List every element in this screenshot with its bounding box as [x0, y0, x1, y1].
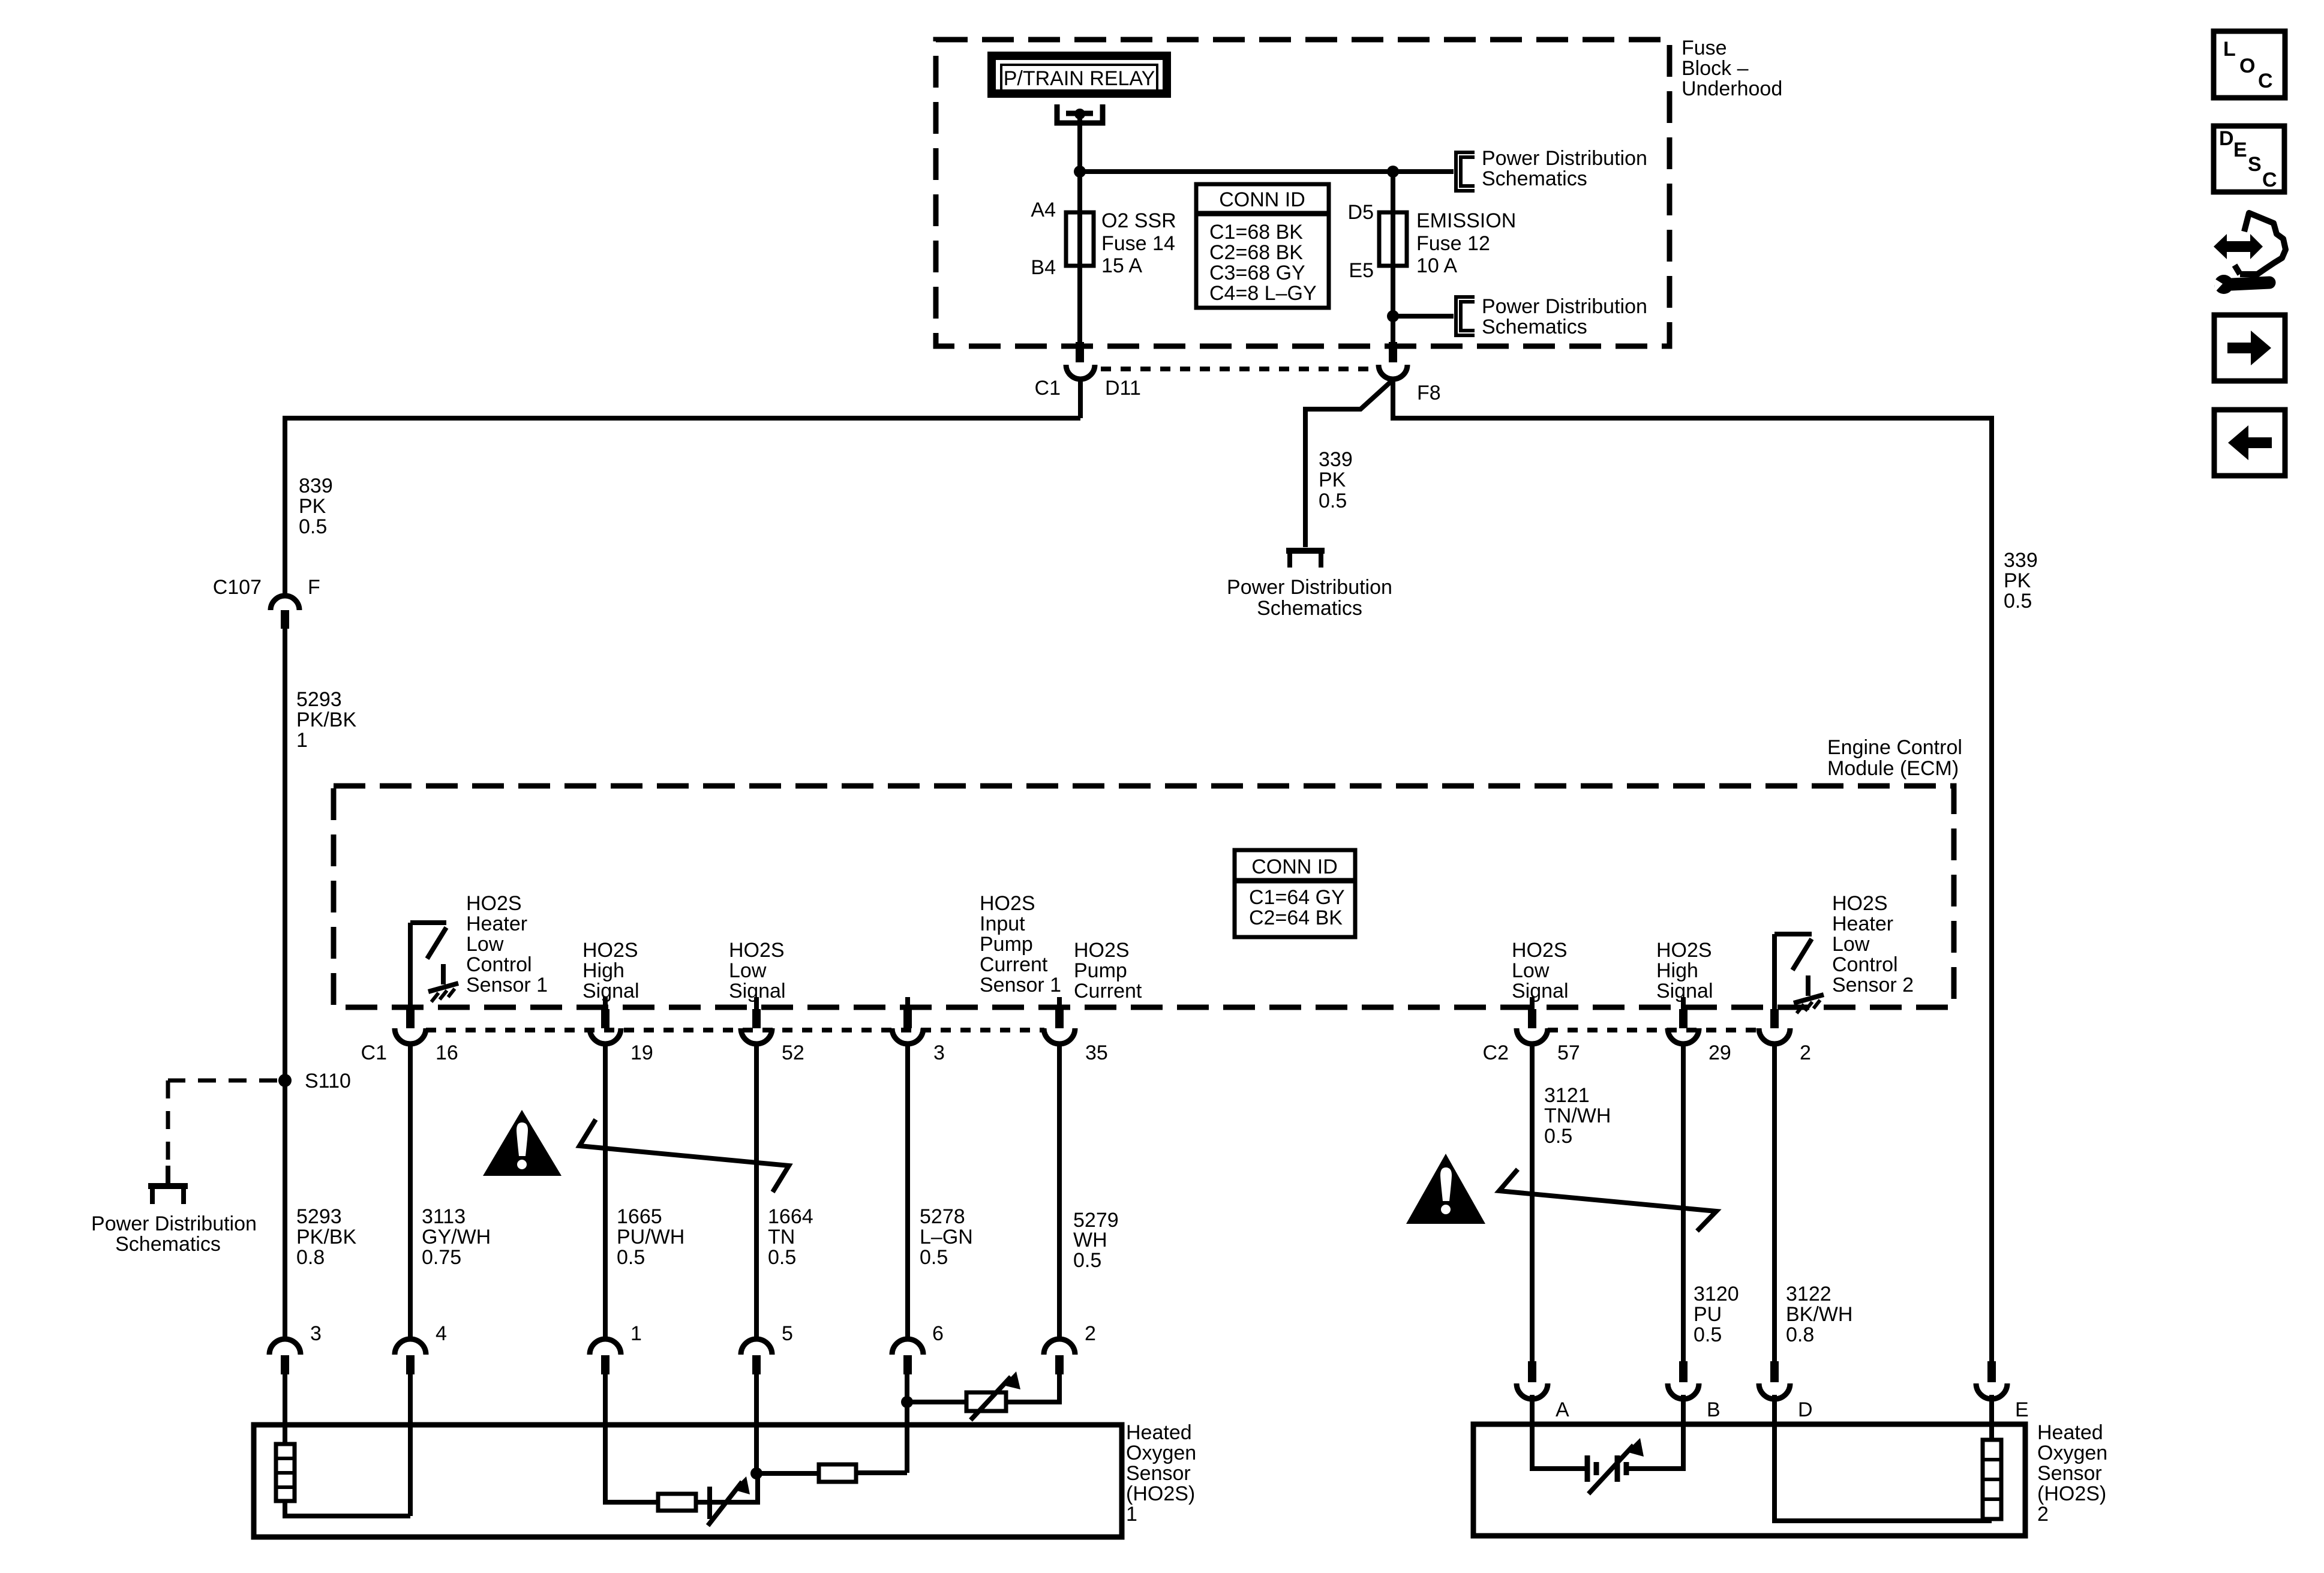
label HO2S High Signal C2: [1656, 939, 1713, 1002]
svg-text:Sensor: Sensor: [2037, 1462, 2102, 1485]
wire 339 PK right bus: [1393, 379, 1992, 1361]
wire 1664 TN: [754, 1044, 759, 1339]
wire pin5 into box: [754, 1374, 759, 1468]
icon back arrow box: [2214, 410, 2285, 476]
wire bus to power distribution: [1080, 169, 1454, 174]
svg-text:0.5: 0.5: [920, 1246, 948, 1269]
fuse F12: EMISSION Fuse 12 10 A: [1379, 212, 1407, 266]
label Power Distribution Schematics 2: [1482, 295, 1647, 338]
label 5293 PK/BK 0.8: [296, 1205, 356, 1269]
svg-text:PK: PK: [2004, 569, 2031, 592]
resistor R1: [658, 1494, 696, 1511]
wire node to resistor R2: [756, 1471, 819, 1476]
svg-text:Oxygen: Oxygen: [1126, 1442, 1196, 1464]
wire resistor R2 to wire6: [856, 1470, 907, 1475]
icon forward arrow box: [2214, 315, 2285, 381]
relay K: P/TRAIN RELAY box: [992, 56, 1167, 94]
wire pin3 into box: [283, 1374, 287, 1444]
svg-text:0.5: 0.5: [1694, 1323, 1722, 1346]
heater element sensor 2: [1983, 1440, 2001, 1519]
svg-text:339: 339: [2004, 549, 2038, 572]
svg-text:0.8: 0.8: [1786, 1323, 1814, 1346]
wire pin6 into box: [905, 1374, 909, 1473]
heater element sensor 1: [276, 1444, 295, 1501]
svg-text:B: B: [1707, 1398, 1721, 1421]
ECM pin 29 connector: [1668, 997, 1699, 1044]
ECM connector line C1: [426, 1028, 1044, 1032]
svg-text:Signal: Signal: [1512, 980, 1569, 1002]
sensor1 pin 1 connector: [590, 1339, 621, 1374]
svg-text:0.5: 0.5: [299, 515, 327, 538]
ECM connector line C2: [1548, 1028, 1759, 1032]
label HO2S Low Signal: [729, 939, 786, 1002]
svg-text:Current: Current: [1074, 980, 1142, 1002]
label Heated Oxygen Sensor (HO2S) 2: [2037, 1421, 2107, 1526]
wire pin4 into box: [408, 1374, 413, 1516]
svg-text:(HO2S): (HO2S): [2037, 1482, 2106, 1505]
wire pin1 into box: [605, 1374, 658, 1502]
svg-text:2: 2: [1800, 1041, 1811, 1064]
svg-text:29: 29: [1709, 1041, 1731, 1064]
svg-text:S110: S110: [305, 1070, 351, 1092]
wire battery to pin B: [1626, 1395, 1683, 1469]
svg-text:3122: 3122: [1786, 1283, 1831, 1305]
pointer zigzag 1: [580, 1119, 789, 1192]
svg-text:BK/WH: BK/WH: [1786, 1303, 1852, 1326]
label HO2S Heater Low Control Sensor 2: [1832, 892, 1914, 996]
connector C107 pin F: [271, 596, 299, 629]
svg-text:C2=68 BK: C2=68 BK: [1209, 241, 1303, 264]
svg-text:L: L: [2223, 38, 2236, 61]
label Power Distribution Schematics 4: [91, 1212, 257, 1256]
label 1664 TN 0.5: [768, 1205, 813, 1269]
svg-text:10 A: 10 A: [1416, 254, 1457, 277]
svg-text:HO2S: HO2S: [582, 939, 638, 962]
off-page bracket 1: [1456, 152, 1475, 191]
svg-text:1: 1: [296, 729, 308, 752]
svg-text:5278: 5278: [920, 1205, 965, 1228]
wire heater to pin4: [285, 1501, 410, 1516]
svg-text:PK/BK: PK/BK: [296, 1226, 356, 1248]
svg-text:CONN ID: CONN ID: [1219, 188, 1305, 211]
sensor2 pin A connector: [1517, 1361, 1548, 1399]
svg-text:Low: Low: [729, 959, 767, 982]
svg-text:L–GN: L–GN: [920, 1226, 973, 1248]
variable arrow R1: [708, 1476, 750, 1526]
svg-text:Block –: Block –: [1682, 57, 1749, 80]
driver HO2S heater low control sensor 2: [1774, 934, 1824, 1013]
wire pin D into box: [1774, 1395, 1992, 1521]
node junction A (relay/fuse14 feed): [1074, 166, 1086, 178]
wire C1 down to left bus: [1078, 379, 1083, 418]
svg-text:HO2S: HO2S: [729, 939, 785, 962]
label 5278 L-GN 0.5: [920, 1205, 973, 1269]
label 5279 WH 0.5: [1073, 1209, 1119, 1272]
wire F8 branch split: [1305, 380, 1393, 547]
ECM CONN ID table: [1235, 850, 1355, 937]
svg-text:C: C: [2262, 169, 2277, 191]
svg-text:Fuse: Fuse: [1682, 37, 1727, 59]
wire 3113 GY/WH: [408, 1044, 413, 1339]
svg-text:C: C: [2258, 70, 2273, 92]
dashed wire to power distribution: [168, 1080, 277, 1184]
svg-text:WH: WH: [1073, 1229, 1107, 1251]
label 839 PK 0.5: [299, 475, 333, 538]
svg-text:Sensor: Sensor: [1126, 1462, 1191, 1485]
svg-text:GY/WH: GY/WH: [422, 1226, 491, 1248]
wire junction to variable resistor: [907, 1400, 966, 1404]
svg-text:Low: Low: [1512, 959, 1550, 982]
label Engine Control Module (ECM): [1827, 736, 1962, 780]
svg-text:HO2S: HO2S: [1074, 939, 1130, 962]
svg-text:O2 SSR: O2 SSR: [1101, 209, 1176, 232]
wire 5279 WH: [1057, 1044, 1062, 1339]
svg-text:Schematics: Schematics: [1482, 167, 1587, 190]
fuse F14: O2 SSR Fuse 14 15 A: [1066, 212, 1094, 266]
svg-text:Heated: Heated: [1126, 1421, 1192, 1444]
value label fuse 12: [1416, 209, 1516, 277]
svg-text:A4: A4: [1031, 199, 1056, 221]
svg-text:5293: 5293: [296, 1205, 342, 1228]
wire resistor R1 to node: [696, 1473, 758, 1502]
wire 5293 PK/BK 1: [283, 629, 287, 1074]
svg-text:D: D: [2219, 127, 2234, 150]
svg-text:PK: PK: [299, 495, 326, 518]
svg-text:Fuse 12: Fuse 12: [1416, 232, 1490, 255]
label 339 PK 0.5 right: [2004, 549, 2038, 613]
ECM pin 3 connector: [892, 997, 923, 1044]
svg-text:5: 5: [782, 1322, 793, 1345]
svg-text:Schematics: Schematics: [115, 1233, 221, 1256]
svg-text:Signal: Signal: [582, 980, 639, 1002]
svg-text:C4=8 L–GY: C4=8 L–GY: [1209, 282, 1317, 305]
icon DESC box: [2214, 126, 2284, 192]
label 339 PK 0.5 center: [1319, 448, 1353, 512]
relay pin bracket: [1057, 104, 1103, 123]
svg-text:C1: C1: [361, 1041, 387, 1064]
svg-text:F8: F8: [1417, 382, 1441, 404]
svg-text:2: 2: [2037, 1503, 2049, 1526]
warning triangle 1: [483, 1110, 562, 1176]
variable resistor R3: [966, 1371, 1020, 1420]
fuse block - underhood dashed box: [936, 40, 1670, 346]
svg-text:TN/WH: TN/WH: [1544, 1104, 1611, 1127]
svg-text:16: 16: [436, 1041, 458, 1064]
node junction sensor cell: [750, 1467, 762, 1479]
icon schematic reference (arrow + wrench): [2213, 213, 2286, 294]
wire 3120 PU: [1681, 1044, 1686, 1361]
svg-text:Oxygen: Oxygen: [2037, 1442, 2107, 1464]
svg-text:1665: 1665: [617, 1205, 662, 1228]
svg-text:D5: D5: [1348, 201, 1374, 224]
svg-text:High: High: [1656, 959, 1698, 982]
sensor2 pin E connector: [1976, 1361, 2007, 1399]
svg-text:0.5: 0.5: [768, 1246, 796, 1269]
svg-text:Heater: Heater: [466, 912, 527, 935]
node junction to power distribution 2: [1387, 310, 1399, 322]
wire fuse12 down: [1391, 172, 1395, 342]
svg-text:0.5: 0.5: [1319, 490, 1347, 512]
label 3121 TN/WH 0.5: [1544, 1084, 1611, 1148]
wire 3122 BK/WH: [1772, 1044, 1777, 1361]
off-page bracket 2: [1456, 297, 1475, 335]
svg-text:Control: Control: [1832, 953, 1898, 976]
svg-text:B4: B4: [1031, 256, 1056, 279]
icon LOC box: [2214, 31, 2285, 98]
HO2S 2 box: [1473, 1424, 2025, 1536]
splice S110: [278, 1074, 292, 1087]
ECM pin 35 connector: [1044, 997, 1075, 1044]
svg-text:F: F: [308, 576, 320, 599]
sensor cell battery symbol: [1587, 1438, 1644, 1494]
sensor1 pin 3 connector: [269, 1339, 301, 1374]
svg-text:19: 19: [630, 1041, 653, 1064]
svg-text:52: 52: [782, 1041, 804, 1064]
label 5293 PK/BK 1: [296, 688, 356, 752]
svg-text:Power Distribution: Power Distribution: [1227, 576, 1392, 599]
wire variable resistor to pin2 drop: [1006, 1374, 1059, 1402]
svg-text:C1=64 GY: C1=64 GY: [1249, 886, 1345, 909]
svg-text:57: 57: [1557, 1041, 1580, 1064]
svg-text:O: O: [2239, 55, 2255, 77]
svg-text:0.5: 0.5: [1544, 1125, 1572, 1148]
off-page bracket 4 (down): [148, 1186, 188, 1204]
ECM pin 57 connector: [1517, 997, 1548, 1044]
connector C1 pin D11: [1066, 342, 1095, 379]
svg-text:Module (ECM): Module (ECM): [1827, 757, 1959, 780]
svg-text:PU: PU: [1694, 1303, 1722, 1326]
svg-text:S: S: [2248, 153, 2262, 176]
svg-text:0.5: 0.5: [2004, 590, 2032, 613]
ECM pin 19 connector: [590, 997, 621, 1044]
sensor2 pin D connector: [1759, 1361, 1790, 1399]
svg-text:0.8: 0.8: [296, 1246, 325, 1269]
svg-text:3113: 3113: [422, 1205, 466, 1228]
svg-text:Underhood: Underhood: [1682, 77, 1782, 100]
node junction wire6: [901, 1396, 913, 1408]
ECM U1: Engine Control Module dashed box: [334, 786, 1954, 1007]
svg-text:HO2S: HO2S: [1832, 892, 1888, 915]
ECM pin 16 connector: [395, 1009, 426, 1044]
svg-text:6: 6: [932, 1322, 944, 1345]
svg-text:Fuse 14: Fuse 14: [1101, 232, 1175, 255]
svg-text:339: 339: [1319, 448, 1353, 471]
fuse block CONN ID table: [1196, 184, 1329, 308]
svg-text:Pump: Pump: [980, 933, 1033, 956]
warning triangle 2: [1406, 1154, 1485, 1224]
svg-text:Power Distribution: Power Distribution: [91, 1212, 257, 1235]
svg-text:CONN ID: CONN ID: [1251, 855, 1338, 878]
svg-text:HO2S: HO2S: [466, 892, 522, 915]
svg-text:D11: D11: [1105, 377, 1141, 400]
svg-text:TN: TN: [768, 1226, 795, 1248]
svg-text:HO2S: HO2S: [1512, 939, 1568, 962]
wire 5278 L-GN: [905, 1044, 910, 1339]
svg-text:HO2S: HO2S: [1656, 939, 1712, 962]
svg-text:3: 3: [933, 1041, 945, 1064]
resistor R2: [819, 1464, 856, 1482]
connector line fuse block: [1101, 367, 1374, 371]
svg-text:Power Distribution: Power Distribution: [1482, 295, 1647, 318]
svg-text:Low: Low: [466, 933, 504, 956]
wire 5293 PK/BK 0.8: [283, 1086, 287, 1339]
svg-text:D: D: [1798, 1398, 1813, 1421]
svg-text:3121: 3121: [1544, 1084, 1590, 1107]
svg-text:HO2S: HO2S: [980, 892, 1035, 915]
svg-text:0.75: 0.75: [422, 1246, 461, 1269]
value label fuse 14: [1101, 209, 1176, 277]
off-page bracket 3 (down): [1286, 551, 1325, 568]
svg-text:C3=68 GY: C3=68 GY: [1209, 262, 1305, 284]
svg-text:C2: C2: [1483, 1041, 1509, 1064]
sensor1 pin 6 connector: [892, 1339, 923, 1374]
wire pin A into box: [1532, 1395, 1587, 1469]
label HO2S High Signal: [582, 939, 639, 1002]
svg-text:C107: C107: [213, 576, 262, 599]
sensor1 pin 2 connector: [1044, 1339, 1075, 1374]
svg-text:Input: Input: [980, 912, 1025, 935]
svg-text:Pump: Pump: [1074, 959, 1127, 982]
svg-text:Heated: Heated: [2037, 1421, 2103, 1444]
svg-text:35: 35: [1085, 1041, 1108, 1064]
svg-text:Current: Current: [980, 953, 1048, 976]
svg-text:(HO2S): (HO2S): [1126, 1482, 1195, 1505]
svg-text:4: 4: [436, 1322, 447, 1345]
svg-text:1664: 1664: [768, 1205, 813, 1228]
sensor2 pin B connector: [1668, 1361, 1699, 1399]
svg-text:2: 2: [1085, 1322, 1096, 1345]
ECM pin 52 connector: [741, 997, 772, 1044]
label 3122 BK/WH 0.8: [1786, 1283, 1852, 1346]
svg-text:C2=64 BK: C2=64 BK: [1249, 906, 1343, 929]
label Power Distribution Schematics 1: [1482, 147, 1647, 190]
label HO2S Input Pump Current Sensor 1: [980, 892, 1061, 996]
svg-text:0.5: 0.5: [617, 1246, 645, 1269]
node junction on fuse12 feed: [1387, 166, 1399, 178]
svg-text:E5: E5: [1349, 259, 1374, 282]
svg-text:15 A: 15 A: [1101, 254, 1142, 277]
wire to off-page bracket 2: [1393, 314, 1454, 319]
wire 3121 TN/WH: [1530, 1044, 1535, 1361]
svg-text:Low: Low: [1832, 933, 1870, 956]
svg-text:E: E: [2233, 139, 2247, 161]
svg-text:EMISSION: EMISSION: [1416, 209, 1516, 232]
svg-text:PU/WH: PU/WH: [617, 1226, 684, 1248]
svg-text:A: A: [1556, 1398, 1569, 1421]
svg-text:C1=68 BK: C1=68 BK: [1209, 221, 1303, 244]
wire 1665 PU/WH: [603, 1044, 608, 1339]
label HO2S Pump Current: [1074, 939, 1142, 1002]
svg-text:5293: 5293: [296, 688, 342, 711]
ECM pin 2 connector: [1759, 1009, 1790, 1044]
svg-text:3120: 3120: [1694, 1283, 1739, 1305]
svg-text:P/TRAIN RELAY: P/TRAIN RELAY: [1004, 67, 1155, 90]
connector F8: [1379, 342, 1407, 379]
label Heated Oxygen Sensor (HO2S) 1: [1126, 1421, 1196, 1526]
label 1665 PU/WH 0.5: [617, 1205, 684, 1269]
svg-text:Schematics: Schematics: [1482, 316, 1587, 338]
label HO2S Heater Low Control Sensor 1: [466, 892, 548, 996]
pointer zigzag 2: [1499, 1169, 1716, 1231]
svg-text:PK: PK: [1319, 469, 1346, 491]
sensor1 pin 5 connector: [741, 1339, 772, 1374]
svg-text:Sensor 2: Sensor 2: [1832, 974, 1914, 996]
svg-text:1: 1: [630, 1322, 642, 1345]
svg-text:Engine Control: Engine Control: [1827, 736, 1962, 759]
svg-text:Heater: Heater: [1832, 912, 1893, 935]
svg-text:0.5: 0.5: [1073, 1249, 1101, 1272]
label 3113 GY/WH 0.75: [422, 1205, 491, 1269]
svg-text:839: 839: [299, 475, 333, 497]
label 3120 PU 0.5: [1694, 1283, 1739, 1346]
svg-text:Power Distribution: Power Distribution: [1482, 147, 1647, 170]
label Fuse Block - Underhood: [1682, 37, 1782, 100]
wire pin E into box: [1989, 1395, 1994, 1440]
wire 839 PK left bus: [285, 418, 1080, 595]
label HO2S Low Signal C2: [1512, 939, 1569, 1002]
HO2S 1 box: [254, 1425, 1122, 1537]
svg-text:E: E: [2015, 1398, 2029, 1421]
wire relay to junction: [1077, 117, 1082, 342]
svg-text:C1: C1: [1035, 377, 1061, 400]
svg-text:3: 3: [310, 1322, 322, 1345]
svg-text:PK/BK: PK/BK: [296, 709, 356, 731]
svg-text:Schematics: Schematics: [1257, 597, 1362, 620]
driver HO2S heater low control sensor 1: [410, 923, 458, 1009]
svg-text:Sensor 1: Sensor 1: [466, 974, 548, 996]
svg-text:Sensor 1: Sensor 1: [980, 974, 1061, 996]
svg-text:High: High: [582, 959, 624, 982]
svg-text:1: 1: [1126, 1503, 1137, 1526]
svg-text:Control: Control: [466, 953, 532, 976]
sensor1 pin 4 connector: [395, 1339, 426, 1374]
label Power Distribution Schematics 3: [1227, 576, 1392, 620]
